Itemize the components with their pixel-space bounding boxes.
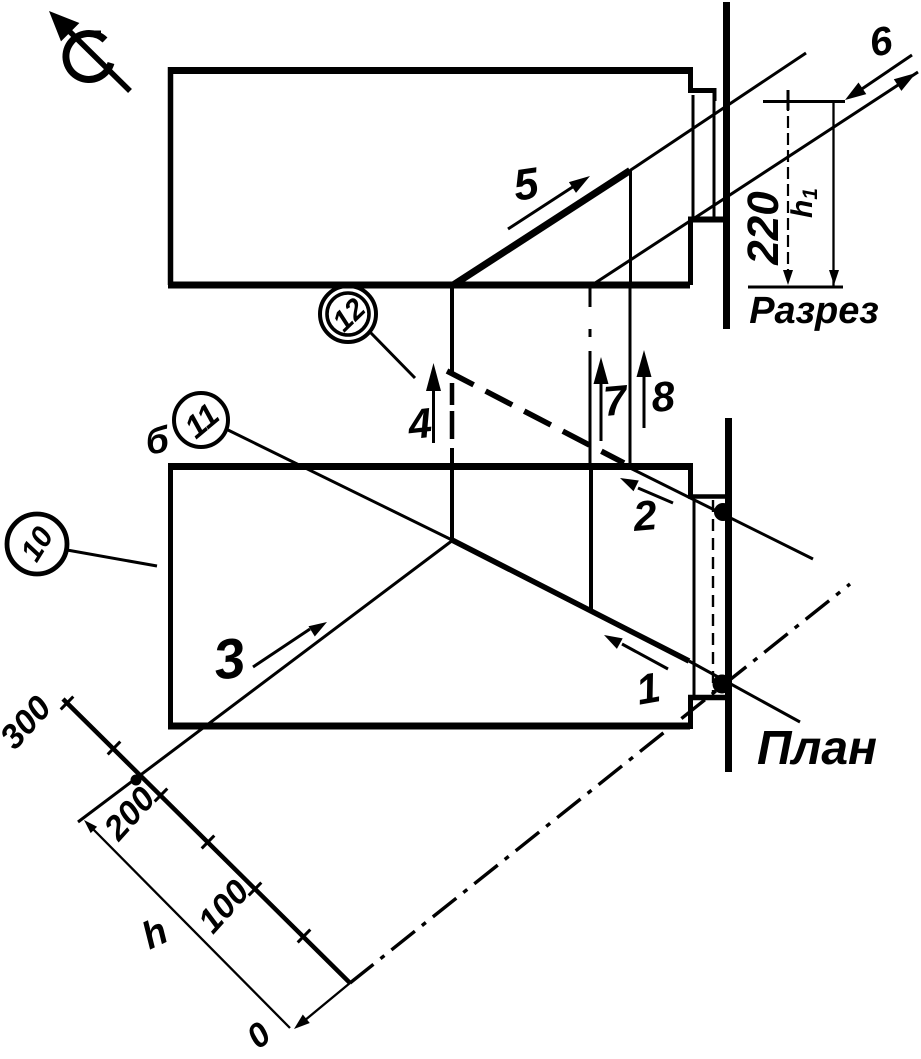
node dot on ruler (trace crossing): [131, 775, 142, 786]
node dot upper (wall crossing): [714, 503, 732, 521]
dimension line 220 (vertical): [783, 99, 793, 285]
h dimension line parallel to ruler: [84, 820, 290, 1028]
leader of mark 10: [67, 550, 157, 566]
trace line to scale (3-line): [78, 540, 453, 822]
arrow 1: [604, 635, 668, 669]
projection line x590: [589, 287, 592, 463]
ruler tick marks: [61, 697, 311, 943]
svg-text:План: План: [757, 722, 877, 775]
dimension reference line (top): [763, 90, 845, 110]
hidden ramp edge line x452 (solid-dashed-solid): [450, 287, 454, 541]
height scale ruler line: [63, 699, 350, 983]
projection line x630: [629, 287, 632, 464]
position mark 11: [174, 393, 228, 447]
section view: support bracket/notch: [688, 88, 727, 220]
leader of mark 12: [369, 331, 415, 378]
arrow 7: [594, 357, 609, 441]
svg-text:2: 2: [630, 491, 658, 540]
arrow 4: [426, 363, 441, 443]
wall line (plan): [725, 418, 732, 772]
section view: formwork panel outline: [168, 67, 691, 285]
wall line (section): [723, 2, 730, 329]
position mark 12: [320, 286, 376, 342]
section trace line b-b: leader from 11, thick ramp edge, thin to wall: [228, 430, 800, 722]
dimension line h1 (vertical): [829, 102, 839, 287]
arrow 8: [637, 350, 652, 428]
arrow 6: [845, 55, 912, 100]
position mark 10: [7, 514, 67, 574]
plan view: support bracket/notch: [688, 497, 727, 698]
svg-text:220: 220: [739, 191, 788, 266]
ramp slope extension line: [630, 53, 806, 171]
plan interior vertical edge x591: [589, 464, 593, 612]
svg-text:Разрез: Разрез: [749, 290, 879, 332]
arrow 2: [620, 478, 673, 503]
lower slope line to wall top: [589, 72, 918, 287]
arrow 3: [253, 622, 327, 667]
svg-text:8: 8: [649, 372, 677, 421]
ramp top vertical edge: [629, 170, 632, 285]
upper edge trace line (2-line): [620, 463, 813, 559]
dimension reference line (bottom): [748, 286, 843, 289]
ramp sloped board (thick): [454, 171, 630, 285]
axis dash-dot line: [350, 584, 850, 983]
node dot lower (wall crossing): [713, 675, 732, 694]
zero pointer line: [294, 983, 350, 1029]
north/orientation symbol: [49, 11, 130, 91]
arrow 5 (concreting direction on slope): [508, 176, 590, 229]
plan view: panel outline: [168, 463, 691, 729]
svg-text:4: 4: [405, 399, 434, 448]
hidden edge dashed diagonal (from 12): [447, 371, 624, 463]
